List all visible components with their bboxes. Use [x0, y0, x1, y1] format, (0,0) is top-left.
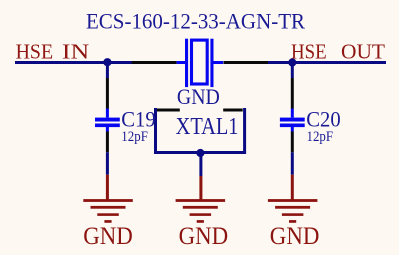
pin 4 of crystal XTAL1 (ground pin) [223, 109, 243, 112]
ground bar 3 left [97, 213, 119, 216]
wire C20 to ground [291, 152, 294, 174]
capacitor C20 [280, 63, 305, 175]
wire HSE_OUT horizontal segment [268, 61, 386, 64]
wire U-shape joining crystal ground pins [156, 108, 245, 153]
ground symbol right (under C20) [268, 175, 318, 223]
wire from crystal ground junction down [199, 153, 202, 177]
right electrode plate [210, 39, 213, 87]
junction node HSE_OUT / C20 [288, 58, 296, 66]
pin 2 of C20 [291, 132, 294, 153]
bottom lead of C19 [106, 127, 109, 132]
svg-text:GND: GND [83, 223, 133, 250]
bottom plate of C20 [280, 124, 305, 128]
svg-text:GND: GND [179, 223, 229, 250]
svg-text:OUT: OUT [341, 39, 385, 63]
svg-text:C19: C19 [121, 106, 155, 131]
pin 1 of crystal XTAL1 (left) [132, 61, 177, 64]
wire HSE_IN horizontal segment [15, 61, 132, 64]
quartz envelope rectangle [192, 40, 208, 84]
ground bar 2 right [275, 206, 310, 209]
wire stub junction to C20 [291, 63, 294, 79]
ground stem right [291, 175, 294, 200]
svg-text:12pF: 12pF [307, 129, 334, 145]
right lead of crystal [213, 61, 223, 64]
net label HSE_OUT [291, 39, 385, 63]
ground bar 1 right [268, 199, 318, 202]
top plate of C20 [280, 118, 305, 122]
svg-text:GND: GND [270, 223, 320, 250]
svg-text:C20: C20 [306, 106, 340, 131]
bottom lead of C20 [291, 127, 294, 132]
pin 2 of C19 [106, 132, 109, 153]
ground bar 3 middle [190, 213, 212, 216]
svg-text:GND: GND [177, 84, 220, 109]
svg-text:XTAL1: XTAL1 [176, 114, 239, 140]
ground bar 3 right [282, 213, 304, 216]
junction node HSE_IN / C19 [103, 58, 111, 66]
ground bar 2 left [91, 206, 126, 209]
svg-text:HSE: HSE [16, 40, 54, 64]
pin 1 of C20 [291, 78, 294, 109]
pin 2 of crystal XTAL1 (ground pin) [157, 109, 180, 112]
svg-text:IN: IN [62, 40, 89, 64]
pin 3 of crystal XTAL1 (right) [224, 61, 269, 64]
capacitor C19 [95, 63, 120, 175]
svg-text:HSE: HSE [291, 39, 327, 63]
wire stub junction to C19 [106, 63, 109, 79]
left lead of crystal [177, 61, 186, 64]
ground stem left [106, 175, 109, 200]
svg-text:12pF: 12pF [121, 129, 148, 145]
crystal XTAL1 body [177, 39, 223, 87]
top plate of C19 [95, 118, 120, 122]
bottom plate of C19 [95, 124, 120, 128]
ground symbol middle (under XTAL1) [176, 176, 226, 223]
ground bar 1 left [83, 199, 133, 202]
ground bar 4 left [104, 220, 111, 223]
ground symbol left (under C19) [83, 175, 133, 223]
wire C19 to ground [106, 152, 109, 174]
net label HSE_IN [16, 40, 90, 64]
pin 1 of C19 [106, 78, 109, 109]
ground bar 2 middle [183, 206, 218, 209]
ground stem middle [199, 176, 202, 200]
top lead of C20 [291, 109, 294, 118]
ground bar 1 middle [176, 199, 226, 202]
top lead of C19 [106, 109, 109, 118]
ground bar 4 right [289, 220, 296, 223]
svg-text:ECS-160-12-33-AGN-TR: ECS-160-12-33-AGN-TR [86, 8, 306, 33]
ground bar 4 middle [197, 220, 204, 223]
junction node below XTAL1 box [196, 149, 204, 157]
left electrode plate [185, 39, 188, 87]
